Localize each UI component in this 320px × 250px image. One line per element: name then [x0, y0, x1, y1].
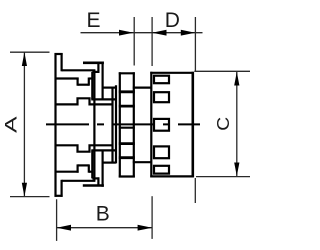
notch top right wall [88, 78, 90, 86]
svg-text:D: D [165, 9, 180, 32]
dim D right extension line [194, 17, 196, 71]
left body bottom step vertical [60, 180, 62, 197]
dim C bottom extension line [196, 176, 250, 178]
tooth T2 [154, 92, 169, 102]
arrow D right [181, 30, 195, 36]
svg-text:A: A [2, 115, 20, 132]
shoulder line top left [103, 86, 116, 88]
left body top step vertical [60, 53, 62, 71]
svg-text:C: C [213, 117, 233, 131]
arrow E right [119, 30, 134, 36]
arrow C down [234, 163, 239, 177]
notch top line left segment [56, 77, 79, 79]
cap bottom line [83, 184, 104, 187]
notch top inner vertical [91, 72, 93, 100]
cap right edge lower [101, 150, 103, 186]
tooth T1 [154, 76, 169, 84]
notch top left wall [76, 78, 78, 86]
shoulder line top right [133, 86, 152, 88]
right block right face [192, 72, 195, 178]
upper channel line with bump [56, 98, 113, 104]
cap inner step vertical top [97, 62, 99, 73]
rib band line 5 [119, 156, 135, 159]
tooth T3 [154, 119, 169, 131]
notch top bottom line [78, 84, 89, 86]
centerline [46, 123, 200, 125]
lower inner shelf line [91, 149, 116, 151]
notch bottom left wall [76, 164, 78, 172]
tooth T4 [154, 146, 169, 158]
arrow B right [138, 225, 153, 231]
notch bottom top line [78, 164, 89, 166]
right block corner stub [194, 178, 196, 203]
dim A top extension line [10, 51, 50, 53]
notch bottom line right segment [89, 171, 93, 173]
dim B right extension line [151, 196, 153, 239]
dim B horizontal line [57, 227, 153, 229]
rib column bottom [119, 175, 135, 177]
notch bottom line left segment [56, 171, 79, 173]
arrow C up [234, 72, 239, 86]
lower channel line with bump [56, 145, 113, 151]
right block left face [150, 72, 152, 178]
left body left face [54, 53, 56, 197]
svg-text:E: E [86, 9, 100, 32]
dim E right extension line [133, 17, 135, 66]
right block top edge [150, 72, 194, 74]
dim A vertical line [23, 52, 25, 196]
arrow B left [57, 225, 71, 231]
dim D left extension line [151, 17, 153, 66]
neck left vertical [111, 88, 113, 163]
svg-text:B: B [96, 202, 110, 225]
left body top edge [55, 53, 63, 55]
rib band line 1 [119, 90, 135, 93]
rib column left edge [119, 72, 121, 177]
notch bottom inner vertical [91, 150, 93, 178]
left body inner right vertical [93, 70, 95, 181]
cap inner step horizontal bottom [92, 177, 99, 179]
left body long bottom edge [62, 180, 96, 182]
rib column top [119, 72, 135, 74]
cap top line [83, 61, 104, 64]
notch top line right segment [89, 77, 93, 79]
arrow A down [22, 183, 27, 197]
rib band line 2 [119, 105, 135, 108]
notch bottom right wall [88, 164, 90, 172]
dim B left extension line [56, 199, 58, 241]
cap inner step horizontal top [92, 71, 99, 73]
arrow A up [22, 52, 27, 66]
cap inner step vertical bottom [97, 177, 99, 186]
upper inner shelf line [91, 98, 116, 100]
arrow D left [152, 30, 166, 36]
shoulder line bottom left [103, 162, 116, 164]
rib column right edge [133, 72, 135, 177]
right block bottom edge [150, 175, 194, 177]
rib band line center [119, 127, 135, 129]
dim C vertical line [236, 72, 238, 177]
shoulder line bottom right [133, 161, 152, 163]
neck right vertical [115, 85, 117, 163]
dim E-D horizontal line [81, 32, 203, 34]
dim A bottom extension line [10, 196, 50, 198]
rib band line 4 [119, 142, 135, 145]
dim C top extension line [194, 70, 250, 72]
tooth T5 [154, 166, 169, 174]
left body long top edge [62, 69, 96, 71]
cap right edge upper [101, 62, 103, 100]
left body bottom edge [55, 195, 63, 197]
